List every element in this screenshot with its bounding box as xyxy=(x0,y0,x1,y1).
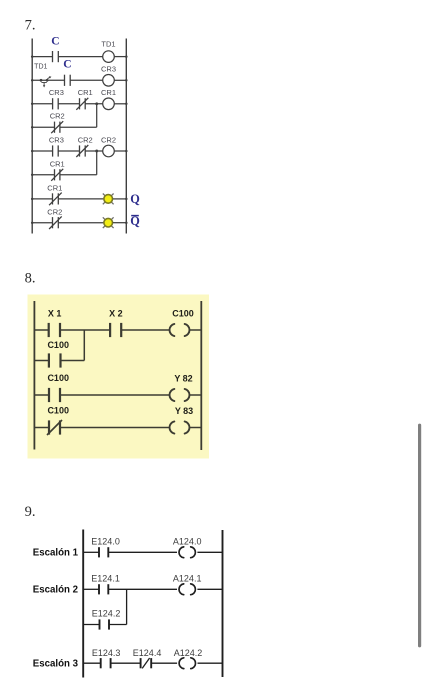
contact C100 NC rung3 xyxy=(47,420,62,435)
wire rung3 right xyxy=(114,103,126,105)
wire L8 rung1 d xyxy=(190,329,201,331)
svg-text:TD1: TD1 xyxy=(101,39,115,48)
junction right rail xyxy=(125,198,128,201)
coil A124.2 xyxy=(179,658,195,669)
svg-text:Q: Q xyxy=(130,192,140,206)
wire L9 rung2 a xyxy=(83,588,99,590)
svg-text:E124.1: E124.1 xyxy=(91,573,120,583)
junction left rail xyxy=(31,174,34,177)
ladder 7 left power rail xyxy=(31,39,33,234)
junction right rail xyxy=(125,55,128,58)
svg-text:Y 82: Y 82 xyxy=(174,374,192,384)
contact CR1 NC rung5 xyxy=(49,193,62,206)
junction left rail xyxy=(31,126,34,129)
coil C100 xyxy=(170,324,190,336)
wire L8 rung3 c xyxy=(190,427,201,429)
wire L8 branch vertical xyxy=(83,330,85,361)
contact CR3 rung4 xyxy=(53,145,59,156)
svg-text:CR3: CR3 xyxy=(49,136,64,145)
junction rung4 xyxy=(95,150,98,153)
wire rung6 left xyxy=(32,222,52,224)
svg-text:TD1: TD1 xyxy=(34,64,47,71)
junction right rail xyxy=(125,221,128,224)
svg-text:E124.0: E124.0 xyxy=(91,536,120,546)
wire L8 rung2 a xyxy=(34,394,49,396)
wire rung4 right xyxy=(114,150,126,152)
svg-text:CR2: CR2 xyxy=(101,136,116,145)
wire L8 rung3 a xyxy=(34,427,49,429)
svg-text:C100: C100 xyxy=(47,405,69,415)
wire branch2 right xyxy=(60,174,97,176)
svg-text:CR3: CR3 xyxy=(101,65,116,74)
wire L9 rung3 a xyxy=(83,662,101,664)
coil CR1 xyxy=(103,98,115,110)
ladder 9 left power rail xyxy=(82,530,84,678)
svg-text:X 1: X 1 xyxy=(48,308,62,318)
wire L8 rung2 c xyxy=(190,394,201,396)
svg-text:A124.0: A124.0 xyxy=(173,536,202,546)
wire rung2 right xyxy=(114,79,126,81)
svg-text:E124.3: E124.3 xyxy=(92,648,121,658)
contact CR1 NC rung3 xyxy=(76,98,88,110)
wire L9 rung1 a xyxy=(83,551,99,553)
coil Y82 xyxy=(170,389,190,401)
wire rung2 mid xyxy=(70,79,103,81)
svg-text:CR1: CR1 xyxy=(101,88,116,97)
wire L8 rung1 a xyxy=(34,329,48,331)
svg-text:CR2: CR2 xyxy=(78,136,93,145)
contact CR2 NC branch1 xyxy=(51,121,63,133)
pilot lamp Qbar xyxy=(103,217,114,228)
wire L8 branch a xyxy=(34,360,49,362)
wire branch2 left xyxy=(32,174,54,176)
wire L9 rung1 c xyxy=(197,551,222,553)
coil TD1 xyxy=(103,51,115,63)
contact CR2 NC rung6 xyxy=(49,216,62,229)
wire rung1 right xyxy=(114,56,126,58)
wire branch1 left xyxy=(32,126,54,128)
ladder 9 right power rail xyxy=(222,530,224,677)
contact E124.2 xyxy=(100,619,110,629)
svg-text:8.: 8. xyxy=(25,270,36,286)
wire L8 rung3 b xyxy=(60,427,169,429)
coil CR2 xyxy=(103,145,115,157)
wire L9 branch a xyxy=(83,624,99,626)
svg-text:CR3: CR3 xyxy=(49,88,64,97)
wire L9 branch vertical xyxy=(126,589,128,624)
wire rung5 mid xyxy=(58,198,104,200)
svg-text:CR1: CR1 xyxy=(47,184,62,193)
ladder 8 left power rail xyxy=(33,301,35,450)
coil A124.0 xyxy=(179,547,195,558)
svg-text:E124.4: E124.4 xyxy=(133,648,162,658)
wire rung5 right xyxy=(113,198,127,200)
svg-text:Escalón 2: Escalón 2 xyxy=(33,585,78,596)
wire branch1 vertical xyxy=(96,104,98,127)
svg-text:CR1: CR1 xyxy=(78,88,93,97)
contact C100 rung2 xyxy=(49,388,60,402)
pilot lamp Q xyxy=(103,194,114,205)
contact C rung2 xyxy=(65,75,71,86)
contact X2 xyxy=(110,323,121,337)
wire rung3 mid1 xyxy=(58,103,79,105)
svg-text:CR1: CR1 xyxy=(50,159,65,168)
junction left rail xyxy=(31,55,34,58)
wire rung5 left xyxy=(32,198,52,200)
wire L9 rung2 b xyxy=(108,588,177,590)
wire rung4 left xyxy=(32,150,52,152)
wire rung2 left xyxy=(32,79,64,81)
junction left rail xyxy=(31,221,34,224)
scrollbar thumb xyxy=(418,424,421,648)
svg-text:Escalón 1: Escalón 1 xyxy=(33,548,79,559)
svg-text:CR2: CR2 xyxy=(47,207,62,216)
wire L9 rung3 d xyxy=(198,662,223,664)
junction left rail xyxy=(31,103,34,106)
svg-text:Escalón 3: Escalón 3 xyxy=(33,659,79,670)
junction left rail xyxy=(31,150,34,153)
wire branch2 vertical xyxy=(96,151,98,175)
svg-text:C100: C100 xyxy=(47,340,69,350)
svg-text:C: C xyxy=(51,36,59,48)
ladder 8 yellow background xyxy=(28,295,210,459)
junction right rail xyxy=(125,103,128,106)
wire L9 rung1 b xyxy=(108,551,177,553)
svg-text:C: C xyxy=(63,59,71,71)
contact C100 branch xyxy=(49,353,61,367)
wire L9 branch b xyxy=(109,624,127,626)
wire rung3 mid2 xyxy=(85,103,103,105)
wire rung1 left xyxy=(32,56,52,58)
svg-text:A124.1: A124.1 xyxy=(173,573,202,583)
wire L9 rung3 b xyxy=(111,662,141,664)
contact X1 xyxy=(49,323,60,337)
contact E124.4 NC xyxy=(141,658,152,668)
wire rung6 mid xyxy=(58,222,104,224)
wire rung4 mid2 xyxy=(85,150,103,152)
wire rung4 mid1 xyxy=(58,150,79,152)
wire L8 rung1 c xyxy=(121,329,169,331)
contact E124.3 xyxy=(101,658,111,668)
contact CR1 NC branch2 xyxy=(51,169,63,181)
label Q-bar output xyxy=(130,214,140,228)
wire branch1 right xyxy=(60,126,97,128)
wire L8 rung2 b xyxy=(60,394,169,396)
svg-text:7.: 7. xyxy=(25,18,36,34)
svg-text:X 2: X 2 xyxy=(109,308,123,318)
wire rung1 mid xyxy=(58,56,102,58)
coil A124.1 xyxy=(179,584,195,595)
svg-text:Y 83: Y 83 xyxy=(175,406,193,416)
contact E124.0 xyxy=(99,547,108,557)
svg-text:CR2: CR2 xyxy=(50,112,65,121)
ladder 8 right power rail xyxy=(200,301,202,450)
ladder 7 right power rail xyxy=(125,39,127,234)
junction rung3 xyxy=(95,102,98,105)
junction right rail xyxy=(125,150,128,153)
svg-text:C100: C100 xyxy=(172,308,194,318)
coil Y83 xyxy=(170,421,190,433)
svg-text:E124.2: E124.2 xyxy=(92,609,121,619)
junction right rail xyxy=(125,79,128,82)
wire rung6 right xyxy=(113,222,127,224)
wire L8 rung1 b xyxy=(60,329,110,331)
svg-text:9.: 9. xyxy=(25,504,36,520)
junction left rail xyxy=(31,198,34,201)
coil CR3 xyxy=(103,75,115,87)
contact C rung1 xyxy=(53,51,59,62)
svg-text:A124.2: A124.2 xyxy=(174,648,203,658)
wire L8 branch b xyxy=(61,360,85,362)
wire L9 rung2 c xyxy=(197,588,222,590)
wire L9 rung3 c xyxy=(151,662,177,664)
svg-text:C100: C100 xyxy=(47,373,69,383)
junction left rail xyxy=(31,79,34,82)
timed contact TD1 (rung2) xyxy=(40,76,52,87)
contact CR3 rung3 xyxy=(53,98,59,109)
wire rung3 left xyxy=(32,103,52,105)
contact E124.1 xyxy=(99,584,108,594)
contact CR2 NC rung4 xyxy=(76,145,88,157)
